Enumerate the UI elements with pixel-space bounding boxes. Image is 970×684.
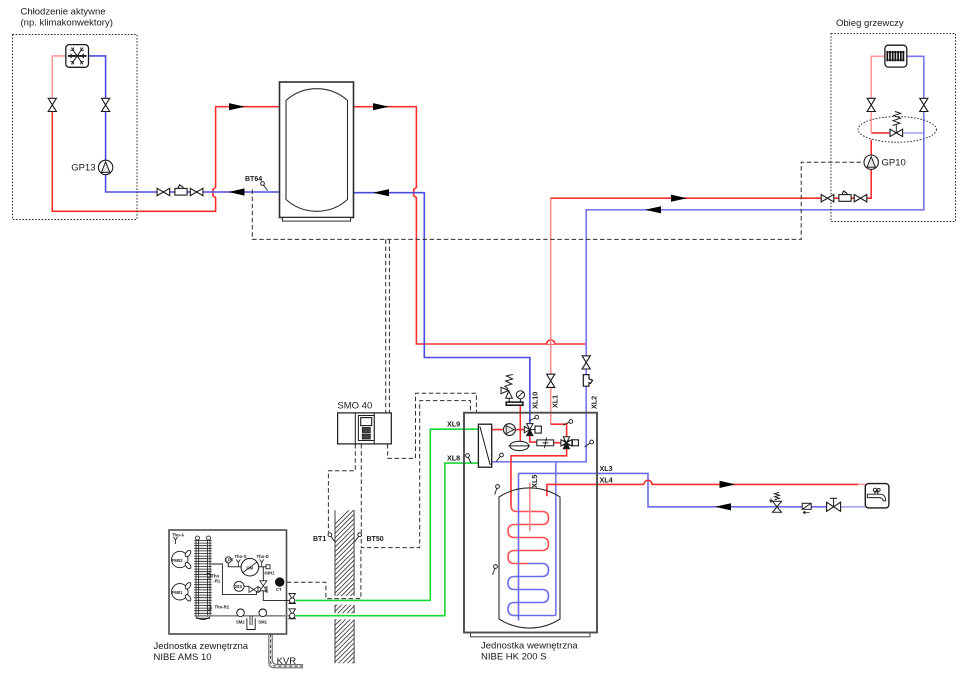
wire blue radiator return [556,56,924,462]
svg-text:Tho-D: Tho-D [257,554,269,559]
svg-text:FM02: FM02 [172,558,183,563]
wire red XL4 out [547,484,644,496]
svg-text:NIBE HK 200 S: NIBE HK 200 S [481,652,546,663]
hop on XL4 over XL3 vertical [644,480,858,484]
diverting valve XL10 [524,424,541,436]
wire red valve to balancing valve [530,436,537,443]
sensor LPT [225,557,231,563]
buffer tank inner vessel [286,89,348,212]
valve SM2 [237,609,245,617]
svg-text:XL4: XL4 [600,475,613,484]
svg-text:XL3: XL3 [600,464,613,473]
wire pink fancoil feed [52,56,66,98]
fan coil snowflake [68,47,87,64]
arrow blue heating return [645,206,661,213]
svg-text:XL1: XL1 [550,395,559,408]
wire dashed SMO to BT1 [328,444,355,533]
svg-text:Chłodzenie aktywne: Chłodzenie aktywne [21,7,106,18]
svg-text:XL9: XL9 [447,420,460,429]
svg-text:XL2: XL2 [590,396,599,409]
pump indoor [504,424,516,436]
safety valve triangles [501,387,509,393]
safety valve group: spring [505,374,513,389]
arrow blue into tank right [373,189,389,196]
wire dashed SMO drop A [385,239,387,412]
arrow red into tank left [229,103,245,110]
wire red supply tank-left [52,107,279,212]
wire lightred faucet stub [858,483,865,485]
valve SM1 [259,609,267,617]
SMO panel [358,416,374,441]
mixing valve DHW [561,437,579,449]
pump GP10 [864,155,878,169]
fan FM01 [172,584,188,600]
svg-text:Tho-A: Tho-A [172,533,184,538]
sensor pin at XL10 valve [529,414,539,422]
wire blue GP13 line [106,112,280,192]
indoor unit base [471,633,591,637]
expansion vessel [510,441,529,450]
fan FM02 [172,551,188,567]
sensor pin left of HX [464,453,472,463]
outdoor unit box [169,530,287,634]
svg-text:NIBE AMS 10: NIBE AMS 10 [154,652,212,663]
valve radiator return [920,98,928,111]
solenoid 20S [234,581,244,591]
svg-text:FM01: FM01 [172,590,183,595]
strainer on heating supply [839,191,851,201]
valve on XL2 riser [582,356,590,369]
svg-text:Tho-R2: Tho-R2 [215,605,230,610]
sensor Tho-A [174,537,178,544]
arrow blue out tank left [229,188,245,195]
svg-text:KVR: KVR [277,656,297,667]
wire blue coil serpentine [508,564,556,616]
svg-text:CT: CT [276,587,282,592]
valve on heating supply 1 [821,195,834,202]
arrow blue XL3 [715,503,731,510]
sensor pin tank upper [491,484,502,495]
svg-text:-R1: -R1 [214,579,221,584]
wire green XL9 [296,429,479,600]
svg-text:BT50: BT50 [367,536,384,543]
svg-text:XL5: XL5 [530,475,539,488]
valve on XL1 riser [547,374,555,387]
wire red heating circuit supply [551,140,872,199]
wire blue XL3 dip tube [518,473,520,620]
balancing valve [537,440,554,446]
heat exchanger [478,424,491,467]
fan coil unit box [66,45,89,68]
wire pink XL5 stub [529,483,531,531]
wire blue fancoil return [89,56,106,98]
pressure switch 63H1 [266,565,270,569]
svg-text:SM2: SM2 [236,620,245,625]
valve on heating supply 2 [854,195,867,202]
check valve on XL3 [802,503,811,509]
wire dashed SMO drop B [388,239,390,412]
buffer tank base [283,218,351,222]
wire lightblue mix stub [903,132,924,134]
svg-text:LPT: LPT [226,558,234,563]
valve V-right cooling [102,98,110,111]
pressure gauge [516,391,524,399]
manifold bar [506,402,523,405]
svg-text:Tho-S: Tho-S [235,554,247,559]
current sensor CT [275,577,284,586]
wire red mix valve top riser [511,449,567,506]
wire pink XL1 riser [550,198,552,424]
sensor pin on XL2 line [585,440,594,447]
compressor [241,558,259,576]
wire pink radiator feed [871,56,885,133]
wire dashed SMO to indoor unit [388,393,477,458]
receiver vessel [247,618,255,629]
wall hatched section [335,510,354,663]
bottom pipe line [196,615,292,617]
wire red GP10 riser [871,132,889,134]
svg-text:Obieg grzewczy: Obieg grzewczy [836,18,904,29]
svg-text:XL10: XL10 [531,392,540,409]
pump GP13 [98,160,112,174]
refrigerant circuit lines [212,563,293,600]
wire blue XL3 out [519,473,846,506]
svg-text:BT1: BT1 [313,536,326,543]
hop on red supply over XL1 [547,340,555,344]
faucet box [865,484,889,508]
wire blue XL2 to HX [492,461,556,463]
wire red balancing valve to mix valve [554,442,561,444]
svg-text:Jednostka wewnętrzna: Jednostka wewnętrzna [481,641,578,652]
svg-text:20S: 20S [235,584,243,589]
mixing valve with spring [890,129,903,136]
indoor unit box [464,413,597,633]
wire blue coil return riser [555,462,557,616]
svg-text:63H1: 63H1 [265,571,276,576]
sensor pin right of HX [494,453,504,462]
wire red coil serpentine [508,506,549,564]
svg-text:SM1: SM1 [258,620,267,625]
evaporator coil [194,536,211,620]
radiator fins [886,51,904,61]
svg-text:XL8: XL8 [447,454,460,463]
faucet icon [867,488,885,501]
strainer on blue return [175,185,187,195]
wire red tank-right supply [354,107,587,344]
valve on blue return 2 [190,188,203,195]
dotted enclosure cooling circuit [13,35,138,220]
wire green XL8 [296,463,479,616]
wire blue tank-right return [354,193,530,424]
wire lightblue faucet stub [841,506,866,508]
sensor pin BT64 [261,182,268,191]
svg-text:Jednostka zewnętrzna: Jednostka zewnętrzna [154,641,249,652]
svg-text:C: C [278,580,282,586]
wire dashed BT64 to bus to GP10 [252,162,863,239]
KVR conduit [269,634,303,668]
arrow red XL4 [720,481,736,488]
wire red XL1 internal [551,424,567,437]
wire dashed CT comm line [287,548,361,599]
radiator box [885,45,907,67]
wire dashed SMO to BT50 and loop to unit [361,401,470,548]
dotted enclosure heating circuit [831,34,956,222]
arrow red heating supply [671,195,687,202]
SMO 40 controller box [338,413,392,444]
svg-text:GP13: GP13 [71,162,95,173]
sensor pin above mixing valve [563,418,573,426]
svg-text:(np. klimakonwektory): (np. klimakonwektory) [21,18,113,29]
svg-text:GP10: GP10 [882,158,906,169]
shutoff valve on XL3 [827,498,841,511]
sensor pin BT1 [328,533,335,542]
svg-text:BT64: BT64 [245,176,262,183]
DHW tank [499,488,560,628]
wire red pump line indoor [492,429,524,431]
valve V-left cooling [48,98,56,111]
valve on blue return 1 [157,188,170,195]
buffer tank outer [280,82,354,218]
sensor pin BT50 [355,533,362,542]
valve radiator supply [867,98,875,111]
sensor pin tank lower [489,564,500,575]
safety valve flag on XL2 [583,375,592,387]
service valve lower [289,609,295,619]
arrow red out tank right [373,103,389,110]
service valve upper [289,594,295,604]
dotted ellipse shunt group [858,117,936,143]
svg-text:SMO 40: SMO 40 [337,401,372,412]
wire red safety riser + expansion vessel drop [519,406,521,442]
pressure reducing valve on XL3 [770,492,782,512]
svg-text:CM: CM [247,565,254,570]
expansion valves [249,587,258,593]
